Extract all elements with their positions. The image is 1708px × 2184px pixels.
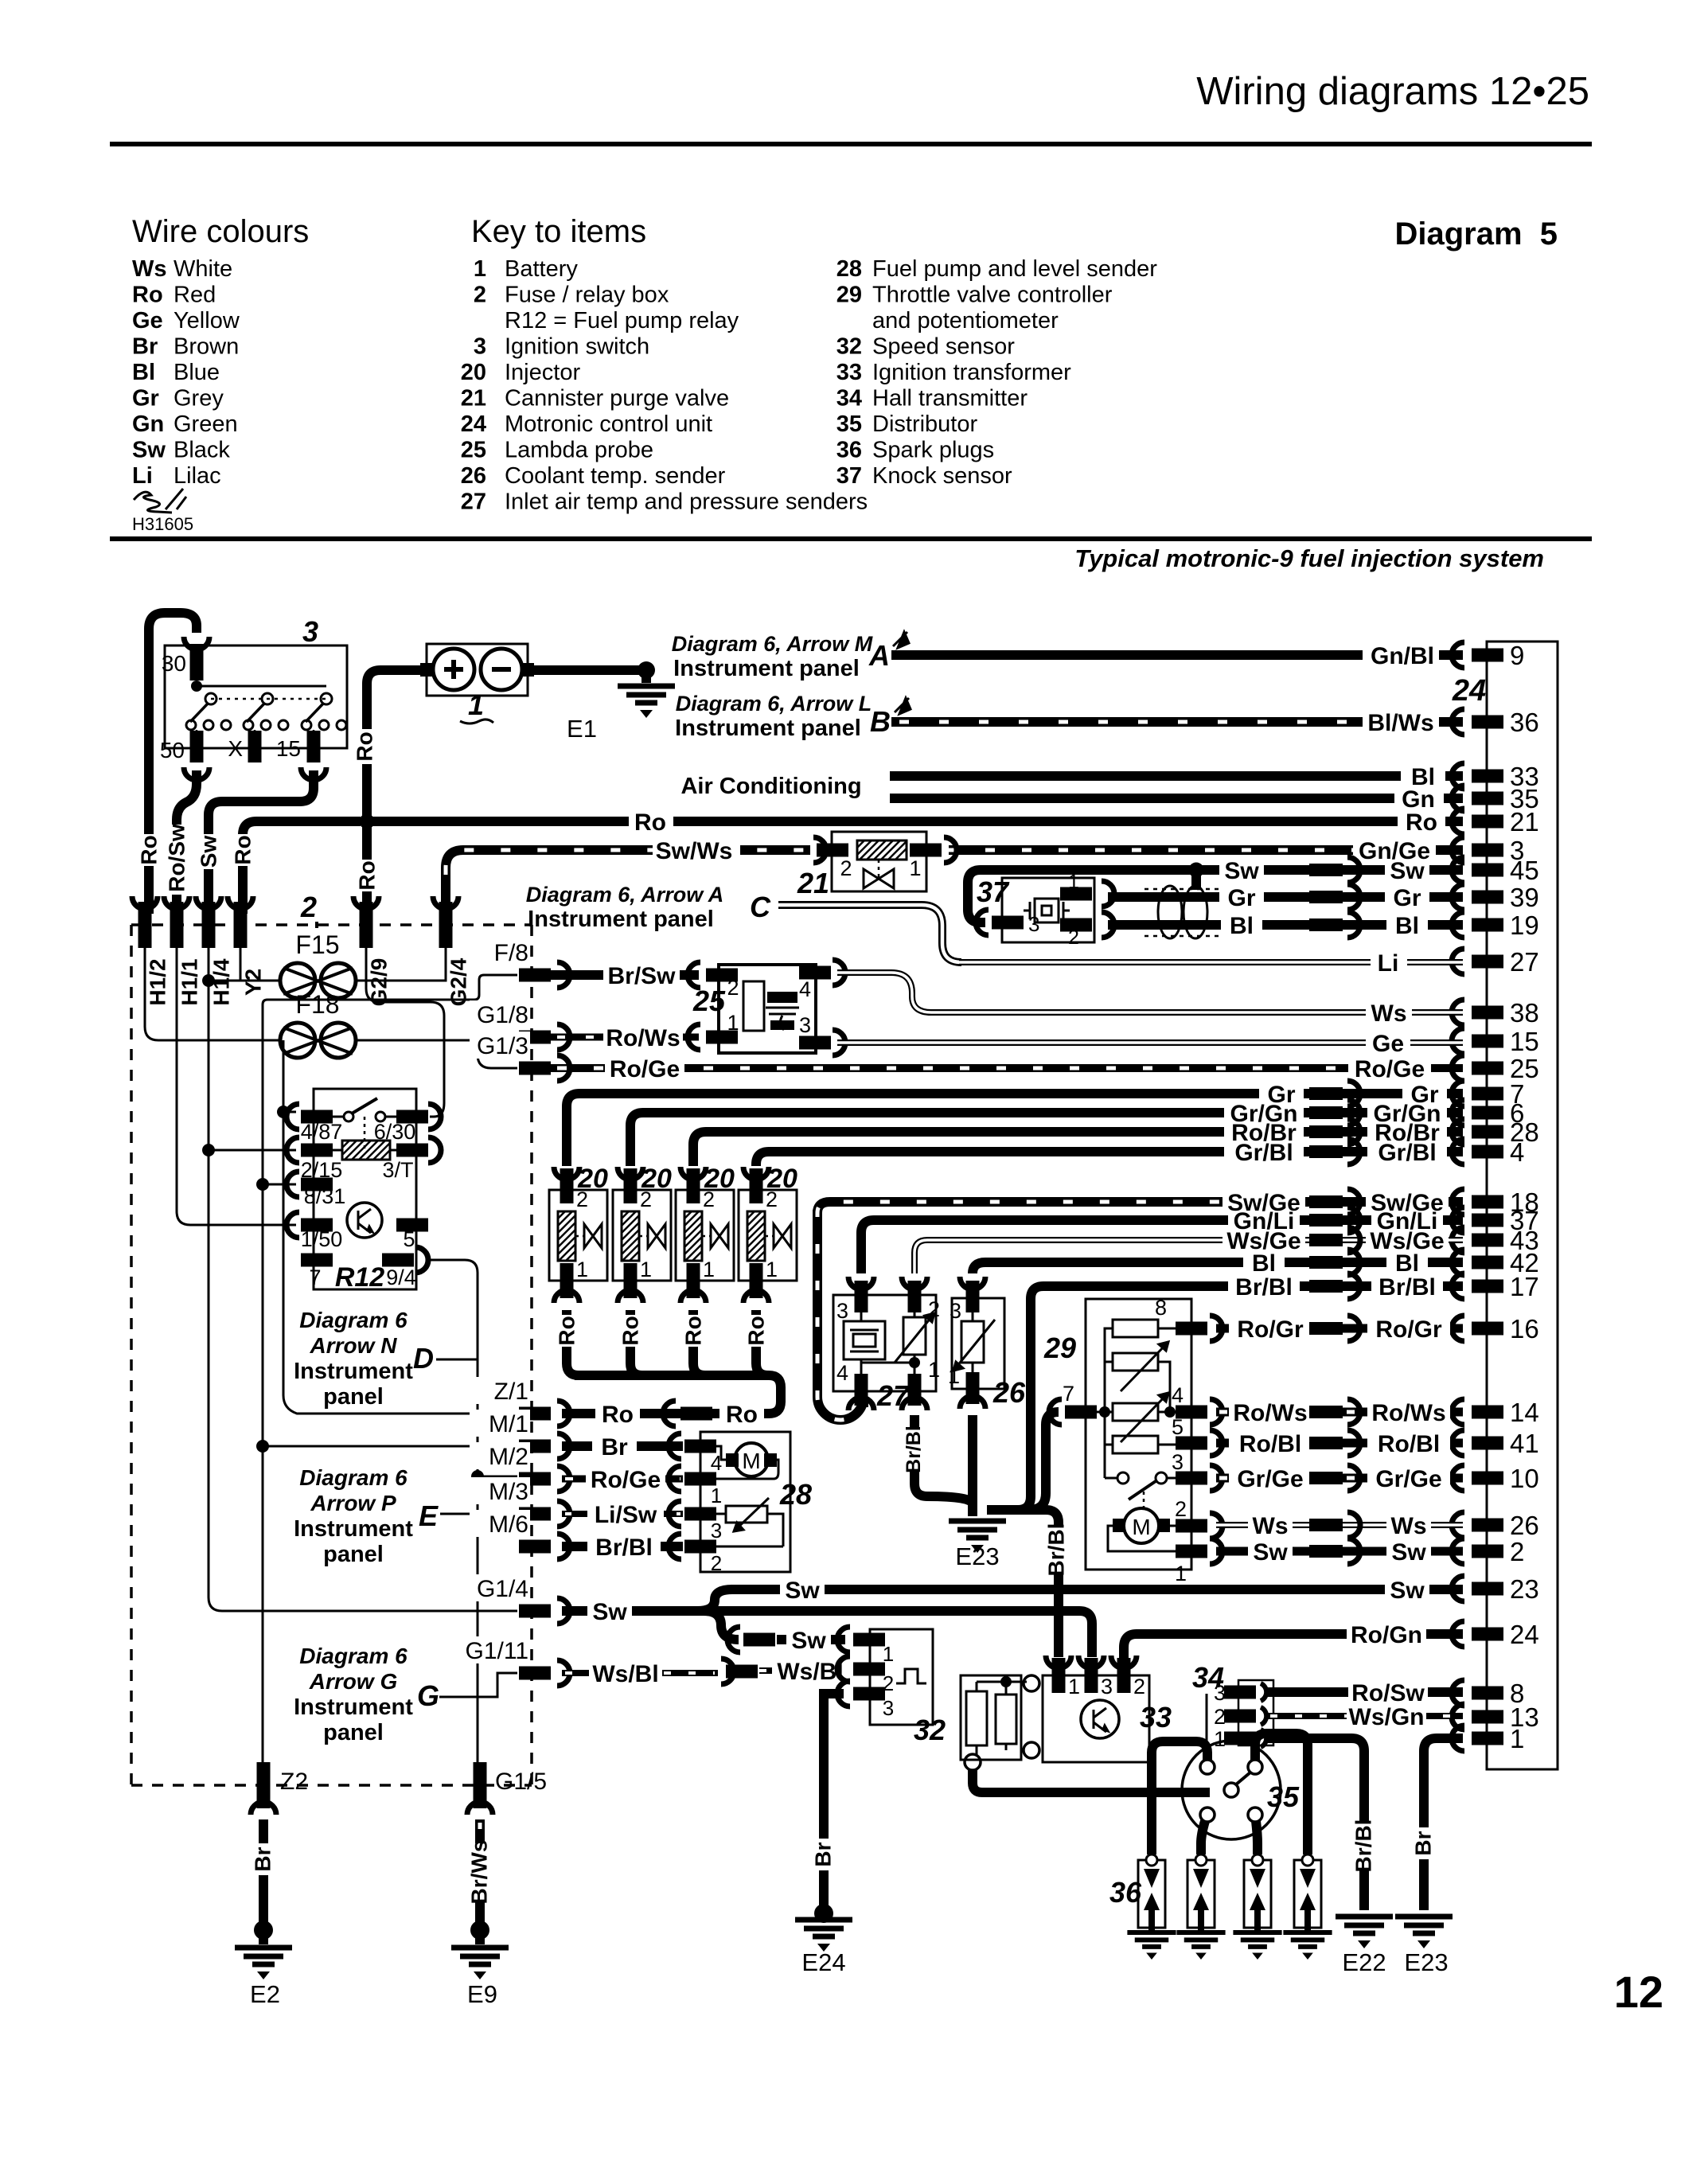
wire battery negative to ground E1 bbox=[528, 661, 655, 679]
svg-text:1: 1 bbox=[727, 1011, 739, 1035]
svg-text:Br/Bl: Br/Bl bbox=[1351, 1819, 1376, 1873]
svg-text:15: 15 bbox=[276, 736, 301, 761]
svg-text:G1/3: G1/3 bbox=[477, 1033, 528, 1059]
svg-text:Ro/Sw: Ro/Sw bbox=[165, 824, 189, 892]
wire colour legend bbox=[132, 256, 240, 489]
wire H1/2 to fuse F18 bbox=[145, 936, 280, 1040]
svg-text:1/50: 1/50 bbox=[301, 1227, 343, 1251]
svg-text:Fuel pump and level sender: Fuel pump and level sender bbox=[872, 256, 1157, 282]
svg-text:E22: E22 bbox=[1342, 1948, 1386, 1976]
svg-text:Diagram 6: Diagram 6 bbox=[299, 1308, 408, 1332]
svg-text:E1: E1 bbox=[567, 715, 597, 743]
wire Ro junction to Y2 bbox=[243, 821, 361, 914]
svg-text:5: 5 bbox=[1172, 1415, 1184, 1439]
connector 24 pin 37 bbox=[1452, 1206, 1539, 1235]
connector pin G2/4 bbox=[433, 896, 471, 1016]
wire Bl from knock sensor pin 2 to pin 19 bbox=[1108, 912, 1463, 939]
connector 24 pin 6 bbox=[1452, 1098, 1524, 1128]
svg-text:3: 3 bbox=[883, 1696, 894, 1720]
svg-text:E9: E9 bbox=[467, 1980, 497, 2008]
svg-text:R12: R12 bbox=[335, 1262, 384, 1293]
svg-text:3: 3 bbox=[474, 334, 486, 360]
svg-text:1: 1 bbox=[1068, 871, 1079, 893]
ignition switch internals bbox=[186, 681, 346, 731]
svg-text:26: 26 bbox=[461, 463, 486, 489]
svg-text:1: 1 bbox=[474, 256, 486, 282]
svg-text:12: 12 bbox=[1614, 1967, 1663, 2017]
svg-text:Sw/Ws: Sw/Ws bbox=[656, 838, 733, 864]
svg-text:Y2: Y2 bbox=[241, 969, 266, 996]
svg-text:32: 32 bbox=[914, 1714, 946, 1746]
svg-text:Knock sensor: Knock sensor bbox=[872, 463, 1012, 489]
component label 27 bbox=[876, 1379, 911, 1412]
key to items column 1 bbox=[461, 256, 868, 515]
connector 24 pin 14 bbox=[1452, 1398, 1539, 1427]
svg-text:Ro/Ge: Ro/Ge bbox=[1355, 1056, 1425, 1082]
svg-text:Typical motronic-9 fuel inject: Typical motronic-9 fuel injection system bbox=[1074, 544, 1544, 572]
svg-text:Ro: Ro bbox=[137, 835, 162, 864]
svg-text:Ro/Ge: Ro/Ge bbox=[591, 1467, 661, 1493]
svg-text:Fuse / relay box: Fuse / relay box bbox=[505, 283, 669, 308]
wire label Ro/Sw on H1/1 wire bbox=[165, 824, 189, 895]
svg-text:Instrument: Instrument bbox=[294, 1516, 413, 1542]
svg-text:8: 8 bbox=[1155, 1296, 1167, 1320]
connector pin G1/8 bbox=[470, 1000, 570, 1050]
wire Br/Ws G1/5 to ground E9 bbox=[467, 1819, 492, 1940]
svg-text:Speed sensor: Speed sensor bbox=[872, 334, 1015, 360]
svg-text:33: 33 bbox=[1140, 1701, 1172, 1734]
component label 3 bbox=[302, 615, 318, 648]
svg-text:M/1: M/1 bbox=[489, 1411, 528, 1437]
svg-text:Ro: Ro bbox=[634, 809, 666, 836]
coolant temp sender 26 bbox=[948, 1277, 1004, 1409]
svg-text:Ro: Ro bbox=[744, 1316, 769, 1345]
svg-text:R12 = Fuel pump relay: R12 = Fuel pump relay bbox=[505, 308, 739, 333]
air conditioning text bbox=[680, 774, 861, 799]
svg-text:Sw: Sw bbox=[791, 1628, 826, 1654]
wire relay 9/4 to M/2 and G1/5 bbox=[430, 1260, 517, 1763]
svg-text:3: 3 bbox=[711, 1519, 722, 1542]
wire arrow G to G1/11 bbox=[439, 1673, 517, 1697]
wire Br/Bl ground E23 to ignition transformer pin 1 bbox=[987, 1510, 1069, 1657]
svg-text:Bl: Bl bbox=[132, 360, 155, 385]
svg-text:3: 3 bbox=[836, 1299, 848, 1323]
svg-text:2: 2 bbox=[474, 283, 486, 308]
svg-text:15: 15 bbox=[1510, 1027, 1539, 1056]
wire Br/Bl to pin 17 (down to ground E23) bbox=[987, 1273, 1463, 1510]
svg-text:Br: Br bbox=[601, 1434, 628, 1461]
svg-text:Gr/Ge: Gr/Ge bbox=[1237, 1466, 1303, 1492]
wire Gr from knock sensor pin 1 to pin 39 bbox=[1108, 884, 1463, 911]
wire fuse F15 to G2/4 bbox=[356, 936, 446, 981]
instrument panel arrow M text bbox=[672, 632, 890, 681]
wire Br/Bl hall pin 1 to ground E22 bbox=[1267, 1738, 1376, 1910]
ignition transformer 33 bbox=[1043, 1656, 1149, 1762]
svg-text:Ro: Ro bbox=[231, 835, 255, 864]
component label 20 (4) bbox=[766, 1164, 797, 1194]
instrument panel arrow A text bbox=[526, 883, 771, 932]
wire Ws/Ge to pin 43 (to sender 27 pin 2) bbox=[914, 1227, 1463, 1273]
svg-text:Li/Sw: Li/Sw bbox=[595, 1502, 657, 1528]
wire Ws lambda to pin 38 bbox=[837, 973, 1463, 1027]
svg-text:Lilac: Lilac bbox=[174, 463, 221, 489]
component label 1 bbox=[460, 688, 493, 723]
svg-text:Instrument panel: Instrument panel bbox=[528, 907, 714, 932]
key to items heading bbox=[471, 214, 646, 249]
svg-text:2: 2 bbox=[1133, 1675, 1145, 1698]
svg-text:G1/4: G1/4 bbox=[477, 1576, 528, 1602]
wire Br/Bl sender 27 pin 1 to ground E23 bbox=[903, 1415, 973, 1504]
svg-text:Arrow P: Arrow P bbox=[310, 1491, 396, 1515]
svg-text:10: 10 bbox=[1510, 1464, 1539, 1493]
svg-text:Ro/Bl: Ro/Bl bbox=[1239, 1431, 1301, 1457]
connector 24 pin 24 bbox=[1452, 1620, 1539, 1649]
connector 24 pin 7 bbox=[1452, 1079, 1524, 1109]
svg-text:Diagram 6: Diagram 6 bbox=[299, 1465, 408, 1490]
svg-text:36: 36 bbox=[1510, 708, 1539, 737]
connector 24 pin 42 bbox=[1452, 1248, 1539, 1277]
wire throttle 29 pin 7 to ground E23 bbox=[987, 1412, 1059, 1510]
svg-text:Ro/Ws: Ro/Ws bbox=[1371, 1400, 1445, 1426]
wire Sw to speed sensor pin 1 bbox=[727, 1627, 845, 1654]
connector 24 pin 10 bbox=[1452, 1464, 1539, 1493]
svg-text:28: 28 bbox=[779, 1478, 812, 1511]
svg-text:37: 37 bbox=[836, 463, 862, 489]
injector 20 (4) bbox=[739, 1167, 797, 1303]
svg-text:Sw: Sw bbox=[592, 1599, 627, 1625]
svg-text:9/4: 9/4 bbox=[386, 1266, 416, 1289]
connector 24 pin 17 bbox=[1452, 1272, 1539, 1301]
connector 24 pin 28 bbox=[1452, 1117, 1539, 1147]
connector pin M/2 bbox=[470, 1442, 570, 1492]
spark plug 36 (4) bbox=[1283, 1854, 1332, 1960]
svg-text:Bl: Bl bbox=[1395, 913, 1419, 939]
arrow mark B bbox=[895, 698, 911, 714]
svg-text:Instrument panel: Instrument panel bbox=[675, 716, 861, 741]
component label 21 bbox=[797, 867, 829, 899]
connector pin H1/4 bbox=[196, 896, 234, 1016]
svg-text:Ro/Ws: Ro/Ws bbox=[1233, 1400, 1307, 1426]
svg-text:M: M bbox=[1132, 1515, 1150, 1539]
wire Ws/Gn hall pin 2 to pin 13 bbox=[1267, 1704, 1463, 1730]
wire H1/1 to relay 1/50 bbox=[177, 936, 296, 1225]
svg-text:2: 2 bbox=[1214, 1705, 1226, 1729]
relay R12 terminal 5 bbox=[396, 1219, 428, 1252]
wire Ge lambda to pin 15 bbox=[837, 1031, 1463, 1057]
connector 24 pin 3 bbox=[1452, 836, 1524, 865]
svg-text:M/3: M/3 bbox=[489, 1479, 528, 1505]
connector 24 pin 38 bbox=[1452, 998, 1539, 1028]
ignition switch terminal 30 bbox=[162, 644, 204, 681]
injector rail Ro wires bbox=[555, 1310, 782, 1402]
HT lead distributor to spark plug 1 bbox=[1152, 1741, 1207, 1854]
wire Sw throttle pin 1 to pin 2 bbox=[1216, 1539, 1463, 1566]
svg-text:Ws/Gn: Ws/Gn bbox=[1349, 1704, 1425, 1730]
svg-text:Gr: Gr bbox=[1227, 885, 1255, 911]
instrument panel arrow G text bbox=[294, 1644, 439, 1745]
wire Gn to pin 35 bbox=[890, 786, 1463, 813]
connector 24 pin 39 bbox=[1452, 883, 1539, 912]
component label 35 bbox=[1267, 1780, 1300, 1813]
page header text bbox=[1196, 70, 1589, 113]
wire Ro/Ge from G1/3 to pin 25 bbox=[551, 1056, 1463, 1082]
relay R12 terminal 1/50 bbox=[287, 1212, 342, 1251]
wire Ro/Ge M2 to fuel pump pin 1 bbox=[562, 1467, 683, 1493]
svg-text:Z2: Z2 bbox=[280, 1769, 308, 1795]
svg-text:Grey: Grey bbox=[174, 386, 224, 411]
svg-text:4: 4 bbox=[1510, 1137, 1524, 1167]
connector 24 pin 16 bbox=[1452, 1314, 1539, 1344]
svg-text:Ro/Sw: Ro/Sw bbox=[1351, 1680, 1425, 1706]
HT lead distributor to spark plug 3 bbox=[1256, 1821, 1258, 1854]
connector pin Z2 bbox=[251, 1762, 308, 1815]
svg-text:Throttle valve controller: Throttle valve controller bbox=[872, 283, 1113, 308]
svg-text:Ro/Bl: Ro/Bl bbox=[1378, 1431, 1440, 1457]
injector 20 (1) bbox=[549, 1167, 607, 1303]
svg-text:25: 25 bbox=[692, 985, 726, 1017]
wire Sw to pin 23 bbox=[731, 1578, 1463, 1604]
component label 29 bbox=[1043, 1332, 1076, 1364]
svg-text:Ro: Ro bbox=[355, 860, 380, 890]
connector pin M/6 bbox=[470, 1510, 570, 1559]
instrument panel arrow L text bbox=[675, 692, 891, 741]
svg-text:Br/Bl: Br/Bl bbox=[903, 1425, 925, 1473]
svg-text:E24: E24 bbox=[801, 1948, 845, 1976]
connector 24 pin 13 bbox=[1452, 1702, 1539, 1732]
svg-text:H1/1: H1/1 bbox=[177, 958, 202, 1005]
svg-text:G1/5: G1/5 bbox=[495, 1769, 547, 1795]
instrument panel arrow N text bbox=[294, 1308, 434, 1410]
ignition switch terminal 15 bbox=[276, 731, 321, 762]
wire Br ECU pin 1 to ground E23 bbox=[1411, 1738, 1464, 1910]
svg-text:3/T: 3/T bbox=[382, 1158, 413, 1182]
svg-text:3: 3 bbox=[1172, 1450, 1184, 1474]
ground E22 bbox=[1336, 1917, 1393, 1976]
svg-text:27: 27 bbox=[876, 1379, 911, 1412]
relay R12 coil bbox=[331, 1141, 398, 1160]
wire Ro/Ws from G1/8 to lambda probe bbox=[551, 1024, 700, 1051]
wire ignition coil HT lead to distributor bbox=[973, 1770, 1210, 1792]
svg-text:33: 33 bbox=[836, 360, 862, 385]
svg-text:Ws/Bl: Ws/Bl bbox=[777, 1659, 843, 1685]
knock sensor 37 bbox=[968, 870, 1114, 949]
ground E9 bbox=[451, 1930, 509, 2008]
svg-text:Br: Br bbox=[251, 1847, 275, 1871]
ignition switch terminal X bbox=[228, 731, 261, 762]
svg-text:Distributor: Distributor bbox=[872, 411, 977, 437]
ground E24 bbox=[795, 1920, 852, 1976]
svg-text:35: 35 bbox=[1267, 1780, 1300, 1813]
svg-text:3: 3 bbox=[1101, 1675, 1113, 1698]
component label 24 bbox=[1452, 674, 1486, 708]
wire Li/Sw M3 to fuel pump pin 3 bbox=[562, 1502, 683, 1528]
svg-text:M/6: M/6 bbox=[489, 1511, 528, 1538]
connector 24 pin 41 bbox=[1452, 1429, 1539, 1458]
relay R12 terminal 3/T bbox=[382, 1137, 441, 1182]
connector pin G1/5 bbox=[467, 1762, 547, 1815]
connector pin G1/4 bbox=[470, 1574, 570, 1624]
svg-text:20: 20 bbox=[461, 360, 486, 385]
svg-text:Injector: Injector bbox=[505, 360, 580, 385]
svg-text:2: 2 bbox=[1175, 1497, 1187, 1521]
svg-text:Ro/Gr: Ro/Gr bbox=[1375, 1316, 1442, 1343]
wire Gr injector to pin bbox=[567, 1081, 1463, 1166]
svg-text:2: 2 bbox=[727, 976, 739, 1000]
svg-text:Bl/Ws: Bl/Ws bbox=[1367, 710, 1433, 736]
svg-text:1: 1 bbox=[1510, 1724, 1524, 1753]
svg-text:Ro: Ro bbox=[555, 1316, 579, 1345]
wire Sw terminal 15 to H1/4 bbox=[209, 767, 326, 914]
svg-text:1: 1 bbox=[1175, 1562, 1187, 1585]
svg-text:29: 29 bbox=[1043, 1332, 1076, 1364]
svg-text:E23: E23 bbox=[955, 1542, 999, 1570]
svg-text:Sw: Sw bbox=[1390, 1578, 1425, 1604]
spark plug 36 (2) bbox=[1176, 1854, 1225, 1960]
svg-text:Ro: Ro bbox=[353, 731, 377, 761]
connector 24 pin 2 bbox=[1452, 1537, 1524, 1566]
relay R12 terminal 8/31 bbox=[287, 1172, 345, 1208]
svg-text:Ro/Gn: Ro/Gn bbox=[1351, 1622, 1422, 1648]
svg-text:D: D bbox=[413, 1342, 434, 1375]
svg-text:25: 25 bbox=[461, 438, 486, 463]
svg-text:E: E bbox=[419, 1500, 439, 1532]
wire Br speed sensor to ground E24 bbox=[811, 1694, 844, 1923]
svg-text:Battery: Battery bbox=[505, 256, 578, 282]
svg-text:Ge: Ge bbox=[1372, 1031, 1404, 1057]
svg-text:19: 19 bbox=[1510, 911, 1539, 940]
svg-text:1: 1 bbox=[1068, 1675, 1080, 1698]
svg-text:38: 38 bbox=[1510, 998, 1539, 1028]
svg-text:3: 3 bbox=[302, 615, 318, 648]
wire Sw/Ge to pin 18 (down to sender 27 pin 4) bbox=[817, 1189, 1463, 1420]
svg-text:34: 34 bbox=[1192, 1661, 1224, 1694]
svg-text:3: 3 bbox=[950, 1299, 961, 1323]
connector 24 pin 21 bbox=[1452, 807, 1539, 837]
wire Y2 to fuse F15 bbox=[240, 936, 242, 981]
svg-text:Inlet air temp and pressure se: Inlet air temp and pressure senders bbox=[505, 489, 868, 515]
wire Bl/Ws to pin 36 (arrow L instrument panel) bbox=[891, 710, 1463, 736]
wire Gr/Bl injector to pin bbox=[756, 1139, 1463, 1166]
wire Ro/Ws throttle pin 4 to pin 14 bbox=[1216, 1399, 1463, 1426]
component label 20 (2) bbox=[641, 1164, 672, 1194]
svg-text:Wiring diagrams 12•25: Wiring diagrams 12•25 bbox=[1196, 70, 1589, 113]
svg-text:Ro/Gr: Ro/Gr bbox=[1237, 1316, 1304, 1343]
wire Sw G1/4 branch junction bbox=[562, 1589, 1092, 1657]
connector pin F/8 bbox=[470, 938, 570, 988]
svg-text:Ws: Ws bbox=[1253, 1513, 1289, 1539]
svg-text:24: 24 bbox=[1510, 1620, 1539, 1649]
svg-text:Ro: Ro bbox=[618, 1316, 643, 1345]
svg-text:Ro: Ro bbox=[132, 283, 163, 308]
svg-text:Sw: Sw bbox=[1391, 1539, 1426, 1566]
speed sensor 32 bbox=[837, 1627, 933, 1725]
svg-text:4: 4 bbox=[799, 977, 811, 1001]
svg-text:Ro: Ro bbox=[681, 1316, 706, 1345]
battery 1 bbox=[420, 644, 534, 696]
svg-text:4/87: 4/87 bbox=[301, 1120, 343, 1144]
svg-text:27: 27 bbox=[461, 489, 486, 515]
wire Ro/Br injector to pin bbox=[693, 1119, 1463, 1166]
shielded cable ellipses bbox=[1145, 886, 1219, 938]
svg-text:2: 2 bbox=[300, 891, 317, 923]
svg-text:8/31: 8/31 bbox=[304, 1184, 346, 1208]
wire Ro/Sw terminal 50 to H1/1 bbox=[177, 767, 209, 914]
svg-text:M: M bbox=[742, 1449, 760, 1473]
svg-text:H31605: H31605 bbox=[132, 514, 193, 534]
svg-text:Yellow: Yellow bbox=[174, 308, 240, 333]
component label 20 (3) bbox=[704, 1164, 735, 1194]
instrument panel arrow P text bbox=[294, 1465, 439, 1567]
wire G2/9 to relay 6/30 bbox=[366, 936, 444, 1117]
svg-text:F/8: F/8 bbox=[494, 940, 528, 966]
hall transmitter pin 2 bbox=[1214, 1705, 1266, 1729]
svg-text:27: 27 bbox=[1510, 947, 1539, 977]
ground E23 lower bbox=[1395, 1917, 1453, 1976]
svg-text:Key to items: Key to items bbox=[471, 214, 646, 249]
injector 20 (2) bbox=[613, 1167, 671, 1303]
svg-text:4: 4 bbox=[836, 1361, 848, 1385]
arrow mark A bbox=[893, 632, 909, 648]
connector 24 pin 9 bbox=[1452, 641, 1524, 670]
wire F/8 feed bbox=[263, 975, 517, 1004]
svg-text:1: 1 bbox=[909, 856, 921, 880]
connector pin H1/1 bbox=[164, 896, 202, 1016]
svg-text:Ws/Bl: Ws/Bl bbox=[592, 1661, 658, 1687]
svg-text:Instrument: Instrument bbox=[294, 1359, 413, 1384]
ignition coil resistors bbox=[961, 1675, 1039, 1770]
svg-text:37: 37 bbox=[977, 876, 1010, 908]
wire Ro/Bl throttle pin 5 to pin 41 bbox=[1216, 1430, 1463, 1457]
svg-text:16: 16 bbox=[1510, 1314, 1539, 1344]
svg-text:29: 29 bbox=[836, 283, 862, 308]
svg-text:23: 23 bbox=[1510, 1574, 1539, 1604]
svg-text:X: X bbox=[228, 736, 243, 761]
connector pin H1/2 bbox=[132, 896, 170, 1016]
ignition switch terminal 50 bbox=[160, 731, 204, 762]
throttle valve controller 29 bbox=[1049, 1296, 1223, 1585]
wire Br M1 to fuel pump pin 4 bbox=[562, 1434, 683, 1461]
wire Ws/Bl G1/11 to speed sensor pin 2 bbox=[562, 1659, 848, 1687]
svg-text:G: G bbox=[417, 1679, 439, 1712]
connector 24 pin 25 bbox=[1452, 1054, 1539, 1083]
wire coolant sender to ground E23 bbox=[968, 1415, 977, 1510]
svg-text:Br/Sw: Br/Sw bbox=[607, 963, 676, 989]
svg-text:5: 5 bbox=[403, 1227, 415, 1251]
svg-text:Instrument: Instrument bbox=[294, 1695, 413, 1720]
fuse F15 bbox=[280, 930, 356, 998]
svg-text:Gr/Bl: Gr/Bl bbox=[1378, 1140, 1436, 1166]
svg-text:2: 2 bbox=[1510, 1537, 1524, 1566]
svg-text:Ws: Ws bbox=[1371, 1000, 1407, 1027]
wire Ro battery feed to pin 21 bbox=[367, 809, 1463, 836]
svg-text:Br/Bl: Br/Bl bbox=[1044, 1523, 1069, 1577]
wire Sw to pin 45 (knock sensor shield) bbox=[981, 857, 1463, 890]
wire H1/4 Sw down to G1/4 bbox=[209, 936, 517, 1611]
svg-text:2: 2 bbox=[1068, 926, 1079, 949]
svg-text:panel: panel bbox=[323, 1542, 384, 1567]
component label 34 bbox=[1192, 1661, 1224, 1748]
ground E23 upper bbox=[949, 1504, 1006, 1570]
wire Ro Z1 to injector rail bbox=[562, 1388, 781, 1428]
connector pin Z/1 bbox=[470, 1377, 570, 1426]
connector 24 pin 4 bbox=[1452, 1137, 1524, 1167]
svg-text:H1/2: H1/2 bbox=[146, 958, 170, 1005]
wire fuse F18 to G1/8 and G1/3 bbox=[356, 1034, 517, 1068]
relay R12 terminal 7 bbox=[301, 1254, 333, 1290]
ECU connector 24 box bbox=[1487, 642, 1558, 1769]
wire label Ro on G2/9 wire bbox=[355, 860, 380, 891]
svg-text:3: 3 bbox=[799, 1013, 811, 1037]
